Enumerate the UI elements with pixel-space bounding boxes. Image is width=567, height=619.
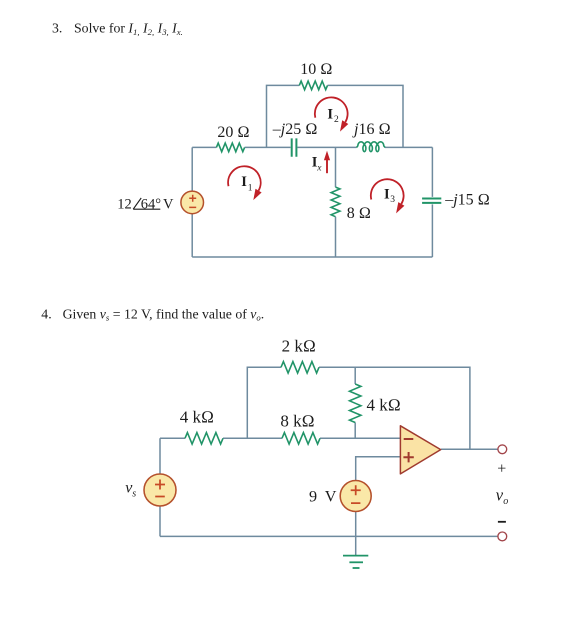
wire: ckt1 right vertical bbox=[431, 147, 433, 257]
wire: ckt4 output bbox=[441, 448, 498, 450]
svg-text:3.: 3. bbox=[52, 21, 62, 36]
op-amp U1 bbox=[400, 426, 440, 474]
output terminal top bbox=[498, 445, 507, 454]
label vs bbox=[125, 480, 136, 500]
svg-text:8 Ω: 8 Ω bbox=[347, 205, 371, 222]
wire: ckt1 left vertical with source bbox=[191, 147, 193, 257]
resistor 8k bbox=[282, 433, 320, 444]
svg-text:+: + bbox=[497, 460, 506, 477]
wire: ckt4 4k vertical branch bbox=[354, 367, 356, 438]
svg-text:I: I bbox=[327, 106, 333, 122]
current Ix arrow bbox=[312, 151, 330, 174]
wire: ckt1 bottom bbox=[192, 256, 432, 258]
mesh current I2 bbox=[315, 97, 348, 131]
svg-text:64°: 64° bbox=[141, 196, 162, 212]
resistor 20 ohm bbox=[216, 143, 244, 152]
svg-text:j16 Ω: j16 Ω bbox=[352, 121, 391, 138]
label vo bbox=[496, 486, 508, 507]
wire: ckt4 top feedback loop bbox=[247, 367, 470, 449]
svg-text:2 kΩ: 2 kΩ bbox=[282, 337, 316, 356]
label minus bbox=[498, 521, 506, 523]
resistor 8 ohm vertical bbox=[331, 187, 340, 217]
svg-text:9: 9 bbox=[309, 488, 317, 506]
svg-text:–j15 Ω: –j15 Ω bbox=[444, 192, 490, 209]
resistor 4k vertical bbox=[350, 384, 361, 423]
wire: ckt1 main horizontal segments bbox=[192, 146, 432, 148]
resistor 4k left bbox=[185, 433, 223, 444]
voltage source 12/64 V bbox=[181, 191, 204, 214]
wire: ckt4 middle horizontal bbox=[160, 437, 401, 439]
resistor 2k bbox=[281, 362, 319, 373]
wire: ckt4 vs branch bbox=[159, 438, 161, 536]
ground bbox=[343, 556, 368, 568]
problem 3 title bbox=[52, 21, 183, 38]
svg-text:–j25 Ω: –j25 Ω bbox=[272, 121, 318, 138]
svg-text:Solve for I1, I2, I3, Ix.: Solve for I1, I2, I3, Ix. bbox=[74, 21, 183, 38]
svg-text:8 kΩ: 8 kΩ bbox=[280, 412, 314, 431]
svg-text:V: V bbox=[325, 488, 337, 506]
svg-text:V: V bbox=[163, 196, 174, 212]
wire: ckt1 top loop bbox=[267, 85, 404, 147]
wire: ckt4 plus input and 9V branch bbox=[356, 457, 401, 555]
svg-text:s: s bbox=[132, 488, 136, 499]
wire: ckt1 middle vertical branch bbox=[335, 147, 337, 257]
svg-text:20 Ω: 20 Ω bbox=[217, 124, 249, 141]
voltage source vs bbox=[144, 474, 176, 506]
mesh current I1 bbox=[228, 166, 262, 200]
svg-text:Given vs = 12 V, find the valu: Given vs = 12 V, find the value of vo. bbox=[63, 306, 265, 322]
svg-text:4 kΩ: 4 kΩ bbox=[180, 407, 214, 426]
label 12 angle 64 V bbox=[117, 196, 174, 212]
capacitor -j25 ohm bbox=[292, 138, 297, 156]
output terminal bottom bbox=[498, 532, 507, 541]
wire: ckt4 bottom bbox=[160, 535, 498, 537]
resistor 10 ohm bbox=[299, 81, 327, 90]
svg-text:o: o bbox=[503, 496, 508, 507]
svg-text:10 Ω: 10 Ω bbox=[300, 61, 332, 78]
voltage source 9V bbox=[340, 481, 371, 512]
svg-text:I: I bbox=[384, 187, 390, 203]
svg-text:1: 1 bbox=[248, 183, 253, 193]
svg-text:x: x bbox=[316, 164, 322, 174]
svg-text:12: 12 bbox=[117, 196, 132, 212]
svg-text:I: I bbox=[241, 174, 247, 190]
svg-text:3: 3 bbox=[390, 195, 395, 205]
svg-text:4 kΩ: 4 kΩ bbox=[367, 396, 401, 415]
svg-text:2: 2 bbox=[334, 115, 339, 125]
mesh current I3 bbox=[371, 179, 405, 213]
inductor j16 ohm bbox=[357, 142, 386, 152]
svg-text:4.: 4. bbox=[41, 306, 51, 321]
capacitor -j15 ohm bbox=[422, 199, 441, 203]
